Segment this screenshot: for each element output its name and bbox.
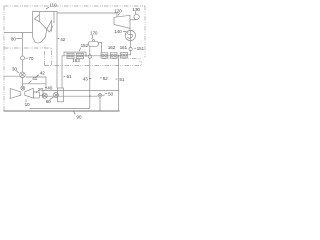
svg-text:163: 163 [72,58,80,63]
svg-text:61: 61 [67,74,72,79]
svg-text:152: 152 [81,43,89,48]
svg-text:20: 20 [38,87,43,92]
svg-text:151: 151 [137,46,145,51]
svg-text:43: 43 [83,76,88,81]
svg-text:110: 110 [49,3,57,8]
svg-text:50: 50 [108,91,113,96]
svg-text:170: 170 [90,31,98,36]
svg-text:161: 161 [120,45,128,50]
svg-text:80: 80 [11,37,16,42]
svg-text:30: 30 [12,66,17,71]
svg-text:41: 41 [32,76,37,81]
svg-text:42: 42 [60,37,65,42]
svg-text:90: 90 [76,115,81,120]
svg-text:40: 40 [47,85,52,90]
svg-text:130: 130 [132,7,140,12]
svg-text:162: 162 [108,45,116,50]
svg-text:140: 140 [114,29,122,34]
svg-text:70: 70 [28,56,33,61]
svg-text:42: 42 [40,71,45,76]
svg-text:51: 51 [119,77,124,82]
svg-text:120: 120 [114,8,122,13]
svg-text:60: 60 [46,99,51,104]
svg-text:10: 10 [25,102,30,107]
svg-text:52: 52 [103,76,108,81]
